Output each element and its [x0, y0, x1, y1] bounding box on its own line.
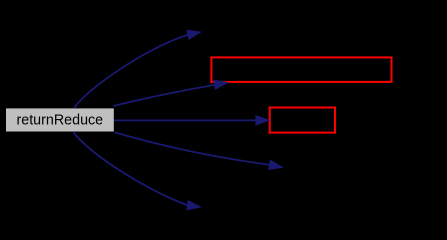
wire edge 2 (to large red box): [114, 85, 215, 106]
wire edge 4 (down-right): [115, 132, 270, 164]
arrowhead 5: [186, 200, 202, 213]
arrowhead 3: [255, 115, 270, 126]
arrowhead 2: [213, 77, 230, 90]
svg-text:returnReduce: returnReduce: [17, 112, 104, 128]
arrowhead 1: [186, 27, 203, 40]
node returnReduce: [6, 108, 114, 131]
wire edge 1 (top curve): [74, 35, 188, 108]
node (large red box): [211, 57, 391, 82]
arrowhead 4: [268, 160, 285, 173]
wire edge 3 (to small red box): [114, 119, 256, 121]
wire edge 5 (bottom curve): [74, 133, 188, 206]
node (small red box): [270, 108, 335, 133]
